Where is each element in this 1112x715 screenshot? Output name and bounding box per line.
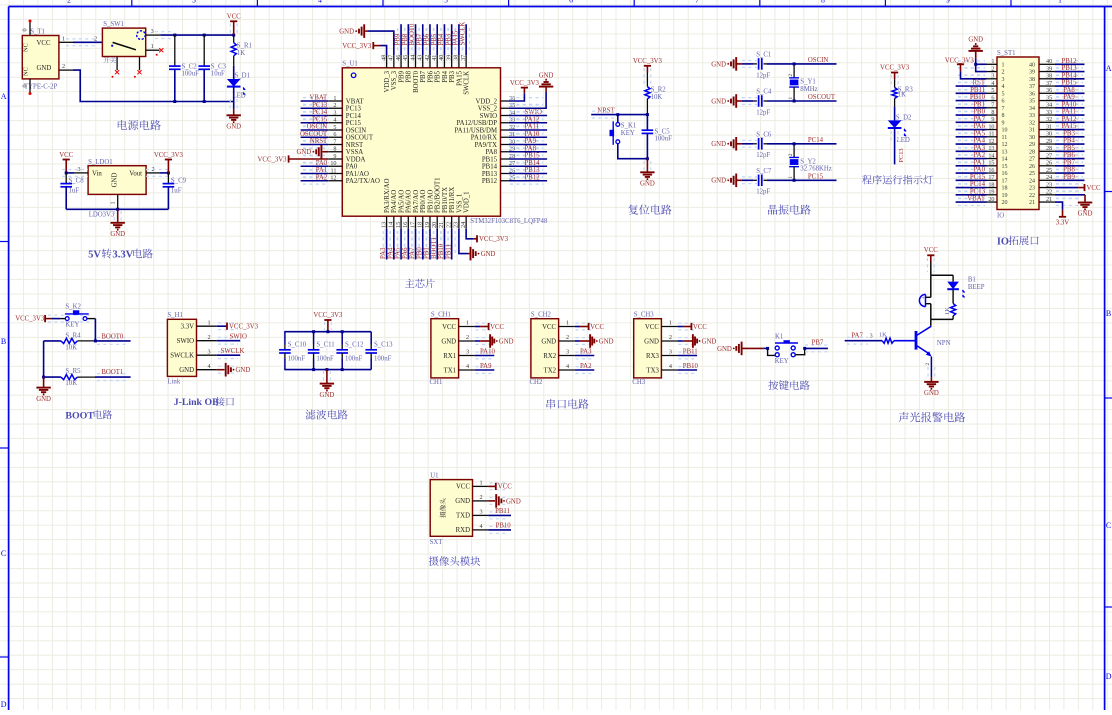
svg-text:RX3: RX3	[646, 353, 659, 360]
svg-text:PB12: PB12	[525, 174, 541, 181]
svg-text:2: 2	[466, 334, 469, 341]
svg-text:10: 10	[330, 160, 336, 167]
svg-text:13: 13	[1002, 149, 1008, 155]
svg-text:PA4: PA4	[387, 247, 394, 259]
U1 pin 23 VSS_1	[458, 216, 460, 229]
wire net PA8 at ST1 pin 36	[1056, 90, 1083, 97]
svg-text:GND: GND	[640, 181, 655, 188]
svg-text:VBAT: VBAT	[309, 95, 328, 102]
svg-text:PB15: PB15	[1061, 80, 1077, 87]
svg-text:5: 5	[444, 0, 448, 4]
svg-text:PA9: PA9	[1063, 94, 1075, 101]
svg-text:PB1: PB1	[973, 101, 985, 108]
svg-text:4: 4	[479, 523, 482, 530]
svg-text:40: 40	[1046, 58, 1052, 65]
svg-text:22: 22	[1029, 193, 1035, 199]
svg-text:LDO3V3: LDO3V3	[89, 212, 115, 219]
svg-text:GND: GND	[711, 98, 726, 105]
svg-text:S_C9: S_C9	[171, 177, 187, 184]
svg-text:OSCIN: OSCIN	[307, 124, 327, 131]
svg-text:PC14: PC14	[312, 109, 328, 116]
svg-text:RX1: RX1	[443, 353, 456, 360]
wire net PA8 at U1 pin 29	[510, 148, 543, 155]
svg-text:TX1: TX1	[444, 367, 456, 374]
svg-text:PB13: PB13	[525, 167, 541, 174]
wire net VBAT at U1 pin 1	[303, 98, 329, 105]
svg-text:1: 1	[479, 480, 482, 487]
resistor R3 1K	[894, 79, 896, 87]
U1 pin 11 PA1/AO	[328, 173, 342, 175]
svg-text:VBAT: VBAT	[967, 196, 986, 203]
svg-text:7: 7	[1002, 106, 1005, 112]
svg-text:PB8: PB8	[402, 33, 409, 45]
svg-text:PA3: PA3	[974, 145, 986, 152]
svg-text:K1: K1	[775, 334, 783, 341]
filter top rail wire	[284, 331, 371, 333]
GND port at U1 pin 8 VSSA	[322, 151, 328, 153]
svg-text:GND: GND	[717, 346, 732, 353]
svg-text:10K: 10K	[651, 94, 663, 101]
frame row ticks and letters	[0, 241, 9, 243]
svg-text:PB14: PB14	[525, 160, 541, 167]
connector ST1 body	[997, 57, 1039, 210]
svg-text:TXD: TXD	[456, 513, 470, 520]
U1 pin 4 PC15	[328, 122, 342, 124]
svg-text:48: 48	[380, 55, 387, 61]
title 按键电路	[768, 380, 809, 390]
svg-text:PA10: PA10	[1062, 101, 1077, 108]
wire net PA7 at ST1 pin 9	[958, 119, 985, 126]
svg-text:GND: GND	[1078, 211, 1093, 218]
svg-text:19: 19	[424, 222, 431, 228]
switch S_SW1 body	[102, 28, 145, 56]
svg-text:S_R1: S_R1	[237, 43, 252, 50]
wire net PB3 at U1 pin 39	[448, 28, 455, 54]
ST1 pin 15	[987, 165, 998, 167]
svg-text:GND: GND	[296, 149, 311, 156]
U1 pin 32 PA11/USB/DM	[501, 129, 509, 131]
svg-text:PB15: PB15	[525, 153, 541, 160]
wire net PA6 at U1 pin 16	[405, 231, 412, 257]
svg-text:4: 4	[318, 0, 322, 4]
svg-text:PA1: PA1	[974, 159, 985, 166]
svg-text:PA1: PA1	[316, 167, 327, 174]
svg-text:B: B	[1, 337, 6, 346]
ST1 pin 2	[987, 71, 998, 73]
wire net PB7 at U1 pin 43	[419, 28, 426, 54]
svg-text:3: 3	[870, 334, 873, 340]
svg-text:S_C12: S_C12	[345, 341, 364, 348]
title 摄像头模块	[429, 556, 480, 566]
svg-text:PA3: PA3	[380, 247, 387, 259]
svg-text:30: 30	[1029, 135, 1035, 141]
capacitor S_C13 100nF	[370, 332, 372, 345]
svg-text:PA11/USB/DM: PA11/USB/DM	[454, 127, 497, 134]
svg-text:PA4/AO: PA4/AO	[391, 190, 398, 213]
svg-text:1: 1	[1002, 62, 1005, 68]
ST1 pin 30	[1039, 136, 1055, 138]
svg-text:PB7: PB7	[1063, 159, 1075, 166]
svg-text:SWCLK: SWCLK	[221, 348, 245, 355]
ST1 pin 24	[1039, 179, 1055, 181]
svg-text:VCC: VCC	[59, 152, 73, 159]
svg-text:GND: GND	[339, 29, 354, 36]
svg-text:GND: GND	[506, 498, 521, 505]
svg-text:Link: Link	[167, 379, 180, 386]
svg-text:3: 3	[566, 349, 569, 356]
title 串口电路	[546, 399, 588, 409]
wire net PA10 at U1 pin 31	[510, 134, 543, 141]
GND port camera	[488, 500, 495, 502]
svg-text:100nF: 100nF	[655, 136, 673, 143]
VCC_3V3 flag at H1 pin1	[217, 325, 227, 327]
ST1 pin 11	[987, 136, 998, 138]
svg-text:IO: IO	[997, 212, 1004, 219]
net BOOT1 wire and label	[97, 374, 129, 381]
svg-text:3: 3	[77, 166, 80, 173]
svg-text:VDDA: VDDA	[346, 156, 366, 163]
svg-text:27: 27	[1029, 157, 1035, 163]
svg-text:32: 32	[1046, 116, 1052, 123]
svg-text:S_CH2: S_CH2	[531, 311, 552, 318]
svg-text:12pF: 12pF	[756, 152, 770, 159]
svg-text:1: 1	[566, 320, 569, 327]
svg-text:D: D	[1, 700, 7, 709]
ground symbol LDO	[114, 211, 121, 221]
capacitor S_C10 100nF	[284, 332, 286, 345]
sheet frame border	[9, 6, 1112, 8]
svg-text:S_SW1: S_SW1	[103, 21, 124, 28]
serial connector CH1	[431, 319, 459, 378]
wire net PC13 at ST1 pin 19	[958, 191, 985, 198]
U1 pin 27 PB14	[501, 165, 509, 167]
ground symbol filter	[324, 371, 331, 382]
svg-text:8: 8	[991, 109, 994, 116]
MCU U1 STM32F103C8T6 body	[342, 68, 500, 216]
svg-text:CH2: CH2	[530, 379, 543, 386]
wire VCC down to buzzer node	[930, 262, 932, 275]
U1 pin 42 PB6	[429, 55, 431, 68]
wire net PA4 at ST1 pin 12	[958, 141, 985, 148]
GND flag at ST1 pins 1-2	[975, 58, 977, 64]
svg-text:PA12: PA12	[525, 116, 540, 123]
svg-text:40: 40	[438, 55, 445, 61]
U1 pin 46 PB9	[400, 55, 402, 68]
svg-text:2: 2	[1002, 70, 1005, 76]
svg-text:PA2: PA2	[974, 152, 986, 159]
svg-text:29: 29	[1029, 142, 1035, 148]
svg-text:1uF: 1uF	[171, 187, 182, 194]
svg-text:6: 6	[333, 131, 336, 138]
svg-text:11: 11	[331, 167, 337, 174]
svg-text:RXD: RXD	[456, 527, 470, 534]
resistor R2 10K	[646, 73, 648, 87]
camera pin 4 RXD	[490, 527, 509, 534]
svg-text:PA12/USB/DP: PA12/USB/DP	[456, 120, 497, 127]
svg-text:30: 30	[1046, 131, 1052, 138]
wire net PB7 at ST1 pin 26	[1056, 162, 1083, 169]
svg-text:VSS_1: VSS_1	[456, 194, 463, 213]
LDO1 pin 3 stub	[74, 172, 88, 174]
U1 pin 47 VSS_3	[393, 55, 395, 68]
ST1 pin 16	[987, 172, 998, 174]
svg-text:9: 9	[333, 153, 336, 160]
svg-text:PA7: PA7	[974, 116, 986, 123]
svg-text:S_D2: S_D2	[896, 115, 912, 122]
svg-text:PA7: PA7	[409, 247, 416, 259]
ST1 pin 37	[1039, 85, 1055, 87]
U1 pin 19 PB1/AO	[429, 216, 431, 229]
svg-text:38: 38	[1046, 73, 1052, 80]
ST1 pin 6	[987, 100, 998, 102]
ST1 pin 28	[1039, 150, 1055, 152]
svg-text:1: 1	[62, 35, 65, 42]
wire net PC14 at U1 pin 3	[303, 112, 329, 119]
svg-text:2: 2	[479, 494, 482, 501]
H1 pin 2 SWIO	[218, 337, 238, 344]
wire net SWCLK at U1 pin 37	[463, 28, 470, 54]
svg-text:12: 12	[988, 138, 994, 145]
GND port at H1 pin4	[217, 369, 225, 371]
svg-text:PC13: PC13	[970, 188, 986, 195]
svg-text:S_C11: S_C11	[316, 341, 334, 348]
svg-text:33: 33	[1046, 109, 1052, 116]
wire net PA9 at ST1 pin 35	[1056, 97, 1083, 104]
U1 pin 5 OSCIN	[328, 129, 342, 131]
U1 pin 31 PA10/RX	[501, 136, 509, 138]
wire net PA15 at ST1 pin 31	[1056, 126, 1083, 133]
svg-text:PA2: PA2	[316, 174, 328, 181]
U1 pin 12 PA2/TX/AO	[328, 180, 342, 182]
wire net PB12 at U1 pin 25	[510, 177, 543, 184]
svg-text:IO: IO	[997, 236, 1009, 247]
svg-text:VDD_1: VDD_1	[464, 191, 471, 213]
svg-text:11: 11	[989, 131, 995, 138]
wire T1 GND down to bottom rail	[73, 70, 234, 101]
svg-text:C: C	[1, 549, 6, 558]
SW1 bottom pin stubs unconnected	[116, 57, 118, 71]
svg-text:S_C4: S_C4	[756, 89, 772, 96]
svg-text:1: 1	[669, 320, 672, 327]
svg-text:8MHz: 8MHz	[800, 86, 817, 93]
SW1 contact circle	[137, 31, 146, 40]
svg-text:GND: GND	[481, 251, 496, 258]
svg-text:3.3V: 3.3V	[181, 324, 194, 331]
svg-text:PA2: PA2	[580, 363, 592, 370]
LED branch of alarm	[952, 275, 954, 281]
ST1 pin 10	[987, 129, 998, 131]
svg-text:VCC: VCC	[924, 247, 938, 254]
svg-text:35: 35	[1046, 94, 1052, 101]
svg-text:PA3/RX/AO: PA3/RX/AO	[384, 178, 391, 213]
wire net PB10 at U1 pin 21	[441, 231, 448, 257]
svg-text:17: 17	[988, 174, 994, 181]
svg-text:PA0: PA0	[346, 164, 358, 171]
svg-text:PB0: PB0	[973, 109, 985, 116]
svg-text:20: 20	[431, 222, 438, 228]
svg-text:PA15: PA15	[456, 70, 463, 85]
svg-text:7: 7	[333, 138, 336, 145]
ST1 pin 22	[1039, 194, 1055, 196]
wire net PB6 at ST1 pin 27	[1056, 155, 1083, 162]
net SWCLK wire at H1 pin3	[217, 354, 240, 356]
vertical label 摄像头 inside U1	[440, 498, 446, 517]
svg-text:15: 15	[1002, 164, 1008, 170]
title 声光报警电路	[899, 412, 965, 422]
ST1 pin 21	[1039, 201, 1055, 203]
svg-text:1: 1	[1058, 0, 1062, 4]
svg-text:1: 1	[991, 58, 994, 65]
svg-text:16: 16	[988, 167, 994, 174]
svg-text:8: 8	[821, 0, 825, 4]
U1 pin 2 PC13	[328, 107, 342, 109]
ground symbol power circuit	[227, 114, 241, 116]
wire net PB15 at U1 pin 28	[510, 156, 543, 163]
svg-text:SWCLK: SWCLK	[460, 22, 467, 46]
svg-text:PB15: PB15	[482, 156, 498, 163]
U1 pin 38 PA15	[458, 55, 460, 68]
svg-text:C: C	[1106, 521, 1111, 530]
LDO1 pin 2 stub	[146, 172, 160, 174]
capacitor C7 12pF with GND, net PC15	[735, 174, 737, 188]
svg-text:41: 41	[431, 55, 438, 61]
svg-text:D: D	[1106, 672, 1112, 681]
svg-text:2: 2	[788, 153, 794, 156]
svg-text:PB9: PB9	[398, 70, 405, 82]
ST1 pin 18	[987, 187, 998, 189]
svg-text:31: 31	[1046, 123, 1052, 130]
svg-text:PB5: PB5	[1063, 145, 1075, 152]
ground symbol reset	[644, 161, 651, 170]
wire Vout to VCC_3V3 and C9	[146, 170, 170, 177]
U1 pin 33 PA12/USB/DP	[501, 122, 509, 124]
svg-text:43: 43	[417, 55, 424, 61]
svg-text:PB9: PB9	[395, 33, 402, 45]
svg-text:28: 28	[1029, 149, 1035, 155]
wire net PA12 at U1 pin 33	[510, 119, 543, 126]
wire net PA11 at ST1 pin 33	[1056, 112, 1083, 119]
T1 pin 1 VCC stub	[59, 41, 73, 43]
svg-text:4: 4	[991, 80, 994, 87]
ST1 pin 12	[987, 143, 998, 145]
svg-text:3: 3	[1002, 77, 1005, 83]
svg-text:2: 2	[566, 334, 569, 341]
svg-text:3: 3	[333, 109, 336, 116]
svg-text:SXT: SXT	[430, 539, 444, 546]
VCC power flag	[230, 24, 237, 34]
capacitor C4 12pF with GND, net OSCOUT	[735, 94, 737, 108]
capacitor C9 1uF	[167, 173, 169, 184]
svg-text:S_C10: S_C10	[288, 341, 307, 348]
U1 pin 24 VDD_1	[465, 216, 467, 229]
svg-text:24: 24	[1046, 174, 1052, 181]
svg-text:VDD_2: VDD_2	[475, 98, 497, 105]
capacitor C6 12pF with GND, net PC14	[735, 137, 737, 151]
T1 pin 2 GND stub	[59, 69, 73, 71]
ground symbol boot	[43, 377, 45, 388]
svg-text:PC15: PC15	[312, 116, 328, 123]
svg-text:27: 27	[1046, 152, 1052, 159]
LDO ground rail wire	[66, 208, 168, 210]
svg-text:PB7: PB7	[420, 70, 427, 82]
svg-text:SWIO: SWIO	[177, 338, 194, 345]
svg-text:SWIO: SWIO	[230, 334, 247, 341]
svg-text:PB14: PB14	[482, 164, 498, 171]
wire net PA9 at U1 pin 30	[510, 141, 543, 148]
svg-text:47: 47	[388, 55, 395, 61]
U1 pin 18 PB0/AO	[422, 216, 424, 229]
wire net PB1 at ST1 pin 7	[958, 104, 985, 111]
svg-text:VCC_3V3: VCC_3V3	[154, 152, 184, 159]
svg-text:OSCOUT: OSCOUT	[808, 94, 836, 101]
svg-text:12pF: 12pF	[756, 72, 770, 79]
svg-text:37: 37	[1046, 80, 1052, 87]
svg-text:10K: 10K	[65, 345, 77, 352]
svg-text:GND: GND	[968, 37, 983, 44]
svg-text:PA5: PA5	[395, 247, 402, 259]
U1 pin 15 PA5/AO	[400, 216, 402, 229]
svg-text:37: 37	[460, 55, 467, 61]
svg-text:5: 5	[991, 87, 994, 94]
svg-text:12pF: 12pF	[756, 109, 770, 116]
svg-text:PB4: PB4	[442, 70, 449, 82]
svg-text:S_H1: S_H1	[167, 312, 183, 319]
svg-text:PB1/AO: PB1/AO	[427, 189, 434, 213]
svg-text:5: 5	[333, 124, 336, 131]
wire net PA15 at U1 pin 38	[456, 28, 463, 54]
ST1 pin 8	[987, 114, 998, 116]
svg-text:S_K2: S_K2	[65, 304, 81, 311]
U1 pin 40 PB4	[443, 55, 445, 68]
svg-text:PA10: PA10	[525, 131, 540, 138]
wire U1 pin 48 VDD_3 to VCC_3V3 flag	[381, 46, 387, 56]
svg-text:Vout: Vout	[129, 170, 142, 177]
ST1 pin 13	[987, 150, 998, 152]
svg-text:OSCIN: OSCIN	[808, 57, 828, 64]
alarm bottom wire to collector	[931, 318, 953, 320]
ST1 pin 7	[987, 107, 998, 109]
svg-text:PB12: PB12	[482, 178, 498, 185]
svg-text:PB4: PB4	[1063, 138, 1075, 145]
svg-text:S_C3: S_C3	[211, 63, 227, 70]
svg-text:3.3V: 3.3V	[112, 250, 133, 261]
svg-text:10: 10	[988, 123, 994, 130]
connector H1 J-Link body	[167, 319, 196, 376]
svg-text:PA9/TX: PA9/TX	[475, 142, 498, 149]
wire net PB5 at ST1 pin 28	[1056, 148, 1083, 155]
svg-text:PB1: PB1	[424, 247, 431, 259]
svg-text:B: B	[1106, 309, 1111, 318]
svg-text:20: 20	[988, 196, 994, 203]
capacitor C3 10uF	[203, 35, 205, 66]
svg-text:PB3: PB3	[1063, 130, 1075, 137]
svg-text:SWIO: SWIO	[480, 113, 497, 120]
svg-text:VCC: VCC	[490, 324, 504, 331]
svg-text:12: 12	[330, 175, 336, 182]
VCC_3V3 port at U1 pin 9 VDDA	[289, 158, 329, 160]
U1 pin 16 PA6/AO	[407, 216, 409, 229]
svg-text:PC14: PC14	[346, 113, 362, 120]
svg-text:100uF: 100uF	[182, 71, 200, 78]
svg-text:VSSA: VSSA	[346, 149, 363, 156]
svg-text:PA5/AO: PA5/AO	[398, 190, 405, 213]
U1 pin 14 PA4/AO	[393, 216, 395, 229]
camera module U1 body	[430, 480, 472, 537]
svg-text:PB10: PB10	[496, 523, 512, 530]
svg-text:1: 1	[788, 97, 794, 100]
svg-text:11: 11	[1002, 135, 1008, 141]
ST1 pin 14	[987, 158, 998, 160]
